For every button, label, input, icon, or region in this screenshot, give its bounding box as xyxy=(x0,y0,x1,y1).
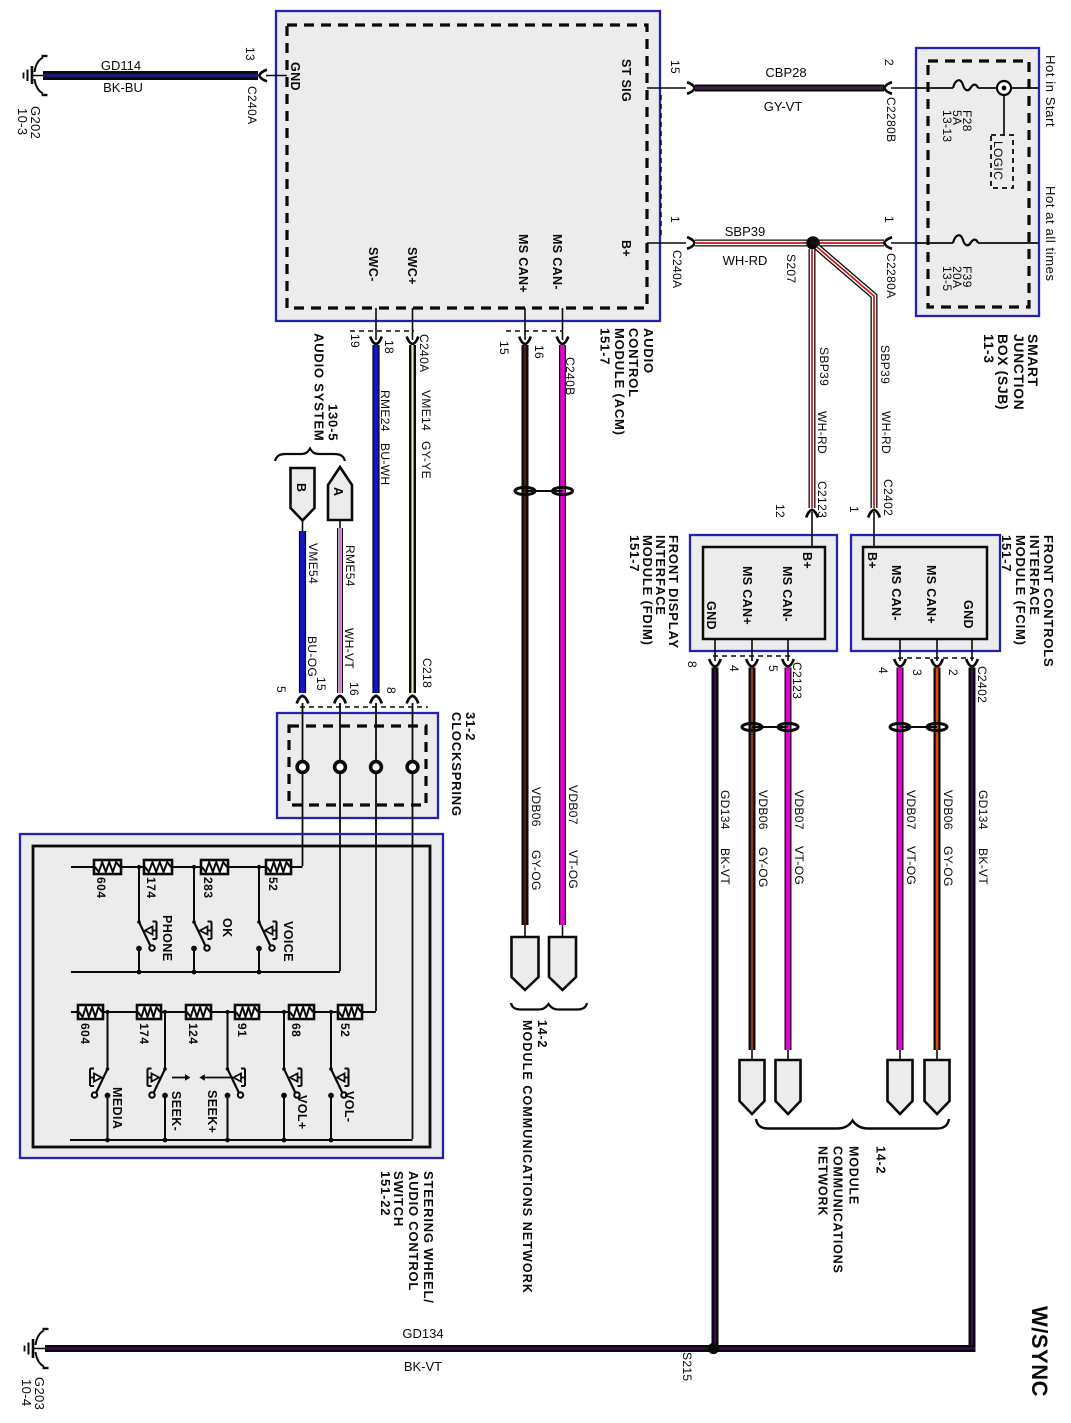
resistor R174 row1 xyxy=(144,860,172,899)
svg-text:CLOCKSPRING: CLOCKSPRING xyxy=(449,712,464,817)
module box FDIM (Front Display Interface Module) outline xyxy=(690,535,837,651)
svg-text:AUDIO CONTROL: AUDIO CONTROL xyxy=(406,1171,421,1291)
svg-text:STEERING WHEEL/: STEERING WHEEL/ xyxy=(421,1171,436,1304)
module box SJB (Smart Junction Box) outline xyxy=(916,48,1039,316)
net label Hot in Start xyxy=(1043,55,1058,127)
resistor R68 row2 xyxy=(289,1005,314,1037)
SJB internal wire hot-at-all-times feed xyxy=(916,242,1038,244)
svg-text:GY-OG: GY-OG xyxy=(941,846,955,887)
svg-text:13-13: 13-13 xyxy=(940,110,954,142)
svg-text:GY-YE: GY-YE xyxy=(419,441,433,479)
svg-text:VME14: VME14 xyxy=(419,390,433,431)
svg-text:INTERFACE: INTERFACE xyxy=(1027,535,1042,616)
svg-text:2: 2 xyxy=(946,669,960,676)
svg-text:MODULE (FCIM): MODULE (FCIM) xyxy=(1013,535,1028,646)
svg-text:VDB06: VDB06 xyxy=(756,790,770,830)
net label 14-2 MODULE COMMUNICATIONS NETWORK right xyxy=(816,1146,888,1274)
svg-text:GY-OG: GY-OG xyxy=(529,850,543,891)
FCIM pin label B+ xyxy=(865,552,879,569)
ACM pin label SWC- xyxy=(366,247,380,282)
svg-text:MS CAN+: MS CAN+ xyxy=(924,565,938,624)
svg-text:MEDIA: MEDIA xyxy=(110,1087,124,1129)
module box STEERING WHEEL/AUDIO CONTROL SWITCH outline xyxy=(20,834,443,1158)
connector pentagon FDIM CAN- to network xyxy=(776,1050,801,1114)
connector arrow pin 12 C2123 at FDIM B+ xyxy=(773,481,829,547)
svg-text:16: 16 xyxy=(347,682,361,696)
svg-text:C2280A: C2280A xyxy=(884,253,898,298)
connector arrow pin 13 C240A at ACM GND xyxy=(243,47,287,124)
svg-text:VT-OG: VT-OG xyxy=(566,850,580,889)
FDIM GND pin line 8 xyxy=(685,639,790,668)
FDIM MS CAN- pin line 5 xyxy=(766,639,804,699)
connector pentagon FCIM CAN- to network xyxy=(888,1050,913,1114)
svg-text:VDB07: VDB07 xyxy=(566,785,580,825)
svg-text:SBP39: SBP39 xyxy=(725,224,765,239)
svg-text:COMMUNICATIONS: COMMUNICATIONS xyxy=(831,1146,845,1274)
connector arrow pin 19 C240A below ACM xyxy=(370,334,431,372)
svg-text:GD134: GD134 xyxy=(718,790,732,830)
svg-text:5: 5 xyxy=(274,686,288,693)
svg-text:MODULE: MODULE xyxy=(847,1146,861,1205)
svg-text:W/SYNC: W/SYNC xyxy=(1027,1306,1052,1397)
svg-text:1: 1 xyxy=(668,216,682,223)
svg-text:AUDIO SYSTEM: AUDIO SYSTEM xyxy=(312,333,327,442)
ACM SWC+ pin line 18 xyxy=(412,308,414,340)
module box FCIM (Front Controls Interface Module) outline xyxy=(851,535,1000,651)
svg-text:WH-RD: WH-RD xyxy=(723,253,768,268)
clockspring coil ring pin8 path xyxy=(407,703,418,846)
svg-text:14-2: 14-2 xyxy=(874,1146,888,1174)
svg-text:B+: B+ xyxy=(800,552,814,569)
FCIM MS CAN+ pin line 3 xyxy=(910,639,937,676)
connector pentagon FDIM CAN+ to network xyxy=(740,1050,765,1114)
wire switch return rail row1 xyxy=(71,971,340,973)
svg-text:4: 4 xyxy=(876,667,890,674)
svg-text:174: 174 xyxy=(144,877,158,899)
ACM pin label MS CAN+ xyxy=(516,234,530,293)
fuse F39 20A 13-5 xyxy=(940,235,978,291)
wire VDB06 GY-OG FCIM CAN+ xyxy=(937,668,955,1051)
ACM MS CAN+ pin line 15 xyxy=(497,308,562,355)
svg-text:SWC+: SWC+ xyxy=(405,247,419,285)
clockspring coil ring pin16 path xyxy=(371,703,382,846)
resistor R52 row1 xyxy=(266,860,291,891)
wire resistor rail (row 2) xyxy=(71,1011,376,1013)
svg-text:14-2: 14-2 xyxy=(535,1020,549,1048)
FCIM pin label MS CAN+ xyxy=(924,565,938,624)
svg-text:S215: S215 xyxy=(680,1352,694,1381)
svg-text:OK: OK xyxy=(220,918,234,938)
ACM pin label MS CAN- xyxy=(550,234,564,290)
wire VDB06 GY-OG FDIM CAN+ xyxy=(752,668,770,1051)
switch MEDIA xyxy=(90,1067,124,1142)
svg-text:3: 3 xyxy=(910,669,924,676)
connector arrow pin 15 at ACM ST SIG xyxy=(668,60,695,94)
svg-text:68: 68 xyxy=(289,1023,303,1037)
svg-text:15: 15 xyxy=(668,60,682,74)
switch PHONE xyxy=(136,915,174,974)
FDIM pin label B+ xyxy=(800,552,814,569)
switch VOL+ xyxy=(281,1067,309,1142)
svg-text:C2402: C2402 xyxy=(975,666,989,703)
wire from clockspring pin8 into switch box xyxy=(412,835,414,1139)
svg-text:18: 18 xyxy=(382,340,396,354)
ACM B+ pin line xyxy=(647,216,686,288)
net label 14-2 MODULE COMMUNICATIONS NETWORK left xyxy=(520,1020,549,1294)
connector C218 arrows and pin numbers at clockspring xyxy=(274,658,434,707)
audio system name label xyxy=(312,333,341,442)
svg-text:C2402: C2402 xyxy=(881,479,895,516)
connector pentagon CAN+ to network xyxy=(512,925,539,990)
svg-text:BK-VT: BK-VT xyxy=(718,848,732,885)
svg-text:GY-OG: GY-OG xyxy=(756,847,770,888)
wire tap to SEEK- switch xyxy=(163,1010,167,1067)
svg-text:NETWORK: NETWORK xyxy=(816,1146,830,1216)
svg-text:10-3: 10-3 xyxy=(15,108,30,135)
svg-text:10-4: 10-4 xyxy=(19,1379,34,1406)
splice junction S215 xyxy=(680,1343,719,1382)
svg-text:151-7: 151-7 xyxy=(999,535,1014,572)
resistor R604 row1 xyxy=(94,860,121,899)
brace audio system 130-5 xyxy=(275,449,345,462)
svg-text:MS CAN-: MS CAN- xyxy=(780,566,794,622)
switch VOL- xyxy=(328,1067,356,1142)
svg-text:4: 4 xyxy=(727,665,741,672)
wire from clockspring pin16 into switch box xyxy=(375,835,377,1011)
FDIM module name label xyxy=(627,535,681,649)
wire SBP39 WH-RD battery feed xyxy=(695,224,884,268)
svg-text:31-2: 31-2 xyxy=(463,712,478,741)
svg-text:13-5: 13-5 xyxy=(940,266,954,291)
ACM pin label B+ xyxy=(619,240,633,257)
wire SBP39 WH-RD to FDIM B+ xyxy=(812,249,831,508)
svg-text:52: 52 xyxy=(338,1023,352,1037)
module box ACM (Audio Control Module) outline xyxy=(276,11,660,321)
svg-text:2: 2 xyxy=(882,59,896,66)
wire VDB06 GY-OG MS CAN+ bus from ACM xyxy=(525,345,543,925)
svg-text:GD134: GD134 xyxy=(402,1326,443,1341)
brace module communications network right xyxy=(756,1119,949,1129)
wire stem from circle to LOGIC box xyxy=(1003,95,1005,135)
connector arrow pin 1 C2280A at SJB xyxy=(882,216,916,298)
wire tap to MEDIA switch xyxy=(105,1010,109,1067)
svg-text:LOGIC: LOGIC xyxy=(991,141,1005,180)
net label W/SYNC xyxy=(1027,1306,1052,1397)
wire VME54 BU-OG from connector B to clockspring 5 xyxy=(303,521,321,694)
LOGIC box xyxy=(991,135,1013,188)
svg-text:VOL-: VOL- xyxy=(342,1091,356,1122)
connector pentagon A audio system xyxy=(328,467,352,520)
wire tap to OK switch xyxy=(192,865,196,920)
wire CBP28 GY-VT start signal xyxy=(695,65,884,114)
svg-text:VME54: VME54 xyxy=(306,543,320,584)
connector pentagon CAN- to network xyxy=(549,925,576,990)
svg-text:VT-OG: VT-OG xyxy=(904,846,918,885)
svg-text:5: 5 xyxy=(766,665,780,672)
svg-text:VDB06: VDB06 xyxy=(529,787,543,827)
FCIM GND pin line 2 xyxy=(946,639,989,703)
svg-text:GY-VT: GY-VT xyxy=(764,99,803,114)
svg-text:91: 91 xyxy=(235,1023,249,1037)
svg-text:VOL+: VOL+ xyxy=(295,1095,309,1130)
svg-text:FRONT CONTROLS: FRONT CONTROLS xyxy=(1041,535,1056,668)
svg-text:151-7: 151-7 xyxy=(598,328,613,365)
svg-text:MS CAN+: MS CAN+ xyxy=(740,566,754,625)
svg-text:CBP28: CBP28 xyxy=(765,65,806,80)
wire GD134 BK-VT ground bus xyxy=(45,1326,976,1374)
svg-text:JUNCTION: JUNCTION xyxy=(1011,334,1027,410)
svg-text:GND: GND xyxy=(288,62,302,91)
FCIM MS CAN- pin line 4 xyxy=(876,639,974,674)
wire GD134 BK-VT FDIM ground to S215 xyxy=(715,668,732,1349)
svg-text:B+: B+ xyxy=(865,552,879,569)
svg-text:MODULE COMMUNICATIONS NETWORK: MODULE COMMUNICATIONS NETWORK xyxy=(520,1020,534,1294)
svg-text:WH-VT: WH-VT xyxy=(342,628,356,669)
ACM MS CAN- pin line 16 xyxy=(562,308,564,340)
svg-text:11-3: 11-3 xyxy=(981,334,997,364)
svg-text:VDB07: VDB07 xyxy=(792,790,806,830)
FDIM MS CAN+ pin line 4 xyxy=(727,639,752,672)
svg-text:RME24: RME24 xyxy=(378,390,392,432)
svg-text:SBP39: SBP39 xyxy=(817,347,831,386)
svg-text:AUDIO: AUDIO xyxy=(641,328,656,374)
wire RME54 WH-VT from connector A to clockspring 15 xyxy=(340,520,357,693)
svg-text:1: 1 xyxy=(847,506,861,513)
svg-text:174: 174 xyxy=(137,1023,151,1045)
brace module communications network left xyxy=(511,1003,587,1010)
svg-text:283: 283 xyxy=(201,877,215,899)
connector pentagon B audio system xyxy=(291,468,315,521)
connector arrow pin 2 C2280B at SJB xyxy=(882,59,916,142)
svg-text:GND: GND xyxy=(704,601,718,630)
SJB module name label xyxy=(981,334,1041,410)
svg-text:RME54: RME54 xyxy=(343,545,357,587)
svg-text:C240A: C240A xyxy=(245,86,259,124)
connector arrow pin 16 below ACM xyxy=(557,337,569,345)
svg-text:B+: B+ xyxy=(619,240,633,257)
switch SEEK- xyxy=(148,1067,184,1142)
svg-text:PHONE: PHONE xyxy=(160,915,174,961)
wire RME24 BU-WH SWC- to clockspring 16 xyxy=(376,345,392,693)
svg-text:BU-OG: BU-OG xyxy=(305,636,319,677)
ACM SWC- pin line 19 xyxy=(348,308,414,348)
svg-text:BU-WH: BU-WH xyxy=(378,443,392,485)
ACM pin label ST SIG xyxy=(619,59,633,102)
svg-text:151-22: 151-22 xyxy=(378,1171,393,1216)
svg-text:S207: S207 xyxy=(784,254,798,283)
svg-text:Hot at all times: Hot at all times xyxy=(1043,186,1058,282)
FDIM pin label MS CAN- xyxy=(780,566,794,622)
net label Hot at all times xyxy=(1043,186,1058,282)
svg-text:124: 124 xyxy=(186,1023,200,1045)
resistor R91 row2 xyxy=(235,1005,259,1037)
svg-text:GD134: GD134 xyxy=(976,790,990,830)
svg-text:MS CAN-: MS CAN- xyxy=(889,565,903,621)
svg-text:C240A: C240A xyxy=(670,250,684,288)
connector arrow pin 4 below FDIM xyxy=(746,659,758,667)
svg-text:A: A xyxy=(331,487,345,496)
svg-text:VOICE: VOICE xyxy=(281,921,295,962)
ground G203 10-4 xyxy=(19,1329,49,1410)
svg-text:CONTROL: CONTROL xyxy=(626,328,641,398)
wire switch return bus row2 xyxy=(70,1139,413,1141)
svg-text:SWC-: SWC- xyxy=(366,247,380,282)
svg-text:BK-VT: BK-VT xyxy=(404,1359,442,1374)
wire GD134 BK-VT FCIM ground down to bus xyxy=(972,668,990,1346)
CLOCKSPRING name label 31-2 xyxy=(449,712,478,817)
wire tap to VOL+ switch xyxy=(282,1010,286,1067)
ground G202 10-3 xyxy=(15,56,48,139)
connector arrow pin 1 C2402 at FCIM B+ xyxy=(847,479,895,547)
SJB logic control circle symbol xyxy=(997,81,1011,95)
svg-text:C240A: C240A xyxy=(417,334,431,372)
connector arrow pin 3 below FCIM xyxy=(931,659,943,667)
wire VDB07 VT-OG FCIM CAN- xyxy=(900,668,918,1051)
svg-text:VDB07: VDB07 xyxy=(904,790,918,830)
svg-text:WH-RD: WH-RD xyxy=(815,411,829,454)
svg-text:MS CAN-: MS CAN- xyxy=(550,234,564,290)
fuse F28 5A 13-13 xyxy=(940,80,978,142)
wire tap to VOL- switch xyxy=(329,1010,333,1067)
svg-text:1: 1 xyxy=(882,216,896,223)
svg-text:Hot in Start: Hot in Start xyxy=(1043,55,1058,127)
svg-text:VT-OG: VT-OG xyxy=(792,846,806,885)
wire SBP39 WH-RD to FCIM B+ xyxy=(817,247,893,508)
resistor R52 row2 xyxy=(338,1005,362,1037)
svg-text:16: 16 xyxy=(532,345,546,359)
switch OK xyxy=(191,918,234,974)
svg-text:SBP39: SBP39 xyxy=(878,345,892,384)
svg-text:VDB06: VDB06 xyxy=(941,790,955,830)
connector arrow pin 1 at ACM B+ xyxy=(687,237,695,249)
svg-text:SEEK-: SEEK- xyxy=(169,1091,183,1131)
connector arrow pin 5 below FDIM xyxy=(782,659,794,667)
connector arrow pin 8 below FDIM xyxy=(709,659,721,667)
wire top resistor rail (row 1) xyxy=(71,866,303,868)
connector pentagon FCIM CAN+ to network xyxy=(925,1050,950,1114)
ACM module name label xyxy=(598,328,657,436)
svg-text:WH-RD: WH-RD xyxy=(879,411,893,454)
resistor R124 row2 xyxy=(186,1005,211,1045)
svg-text:130-5: 130-5 xyxy=(326,404,341,441)
clockspring coil ring pin15 path xyxy=(335,703,346,846)
connector arrow pin 4 below FCIM xyxy=(894,659,906,667)
svg-text:ST SIG: ST SIG xyxy=(619,59,633,102)
svg-text:12: 12 xyxy=(773,504,787,518)
svg-text:19: 19 xyxy=(348,334,362,348)
switch VOICE xyxy=(256,920,295,974)
rocker linkage arrows between SEEK- and SEEK+ xyxy=(172,1074,233,1080)
resistor R604 row2 xyxy=(78,1005,103,1045)
wire tap to PHONE switch xyxy=(137,865,141,920)
FDIM pin label MS CAN+ xyxy=(740,566,754,625)
svg-text:C2280B: C2280B xyxy=(884,97,898,142)
svg-text:52: 52 xyxy=(266,877,280,891)
resistor R283 row1 xyxy=(201,860,228,899)
svg-text:MS CAN+: MS CAN+ xyxy=(516,234,530,293)
ACM ST SIG pin line and connector dashes xyxy=(647,88,686,238)
wire VDB07 VT-OG FDIM CAN- xyxy=(788,668,806,1051)
svg-text:15: 15 xyxy=(314,677,328,691)
wire tap to SEEK+ switch xyxy=(225,1010,229,1067)
switch SEEK+ xyxy=(205,1067,245,1142)
resistor R174 row2 xyxy=(137,1005,161,1045)
wire VME14 GY-YE SWC+ to clockspring 8 xyxy=(413,345,434,693)
svg-text:151-7: 151-7 xyxy=(627,535,642,572)
svg-text:C2123: C2123 xyxy=(790,662,804,699)
wire VDB07 VT-OG MS CAN- bus from ACM xyxy=(563,345,581,925)
twisted pair marker FDIM CAN pair xyxy=(742,723,798,730)
svg-text:8: 8 xyxy=(685,661,699,668)
svg-text:C2123: C2123 xyxy=(815,481,829,518)
module box CLOCKSPRING outline xyxy=(277,713,438,818)
ACM pin label SWC+ xyxy=(405,247,419,285)
wire tap to VOICE switch xyxy=(257,865,261,920)
ACM pin label GND xyxy=(288,62,302,91)
svg-text:15: 15 xyxy=(497,341,511,355)
svg-text:GD114: GD114 xyxy=(101,58,141,73)
SJB internal wire hot-in-start feed xyxy=(916,87,1038,89)
connector arrow pin 18 below ACM xyxy=(407,337,419,345)
wire from clockspring pin5 into switch box xyxy=(302,835,304,866)
FCIM pin label MS CAN- xyxy=(889,565,903,621)
FCIM module name label xyxy=(999,535,1056,668)
FDIM pin label GND xyxy=(704,601,718,630)
twisted pair marker on ACM CAN bus xyxy=(515,487,573,494)
twisted pair marker FCIM CAN pair xyxy=(890,723,947,730)
svg-text:8: 8 xyxy=(384,687,398,694)
FCIM pin label GND xyxy=(961,600,975,629)
svg-text:SEEK+: SEEK+ xyxy=(205,1090,219,1133)
svg-text:604: 604 xyxy=(94,877,108,899)
splice junction S207 xyxy=(784,236,820,283)
connector arrow pin 2 below FCIM xyxy=(966,659,978,667)
svg-text:B: B xyxy=(294,483,308,492)
connector arrow pin 15 C240B below ACM xyxy=(519,337,577,396)
steering switch module name label xyxy=(378,1171,436,1304)
svg-text:13: 13 xyxy=(243,47,257,61)
svg-text:BK-VT: BK-VT xyxy=(976,848,990,885)
svg-text:604: 604 xyxy=(78,1023,92,1045)
svg-text:GND: GND xyxy=(961,600,975,629)
wire GD114 BK-BU ground lead xyxy=(43,58,258,95)
svg-text:BK-BU: BK-BU xyxy=(103,80,143,95)
svg-text:C218: C218 xyxy=(420,658,434,688)
wire from clockspring pin15 into switch box xyxy=(339,835,341,971)
clockspring coil ring pin5 path xyxy=(297,703,308,846)
svg-text:MODULE (ACM): MODULE (ACM) xyxy=(612,328,627,436)
